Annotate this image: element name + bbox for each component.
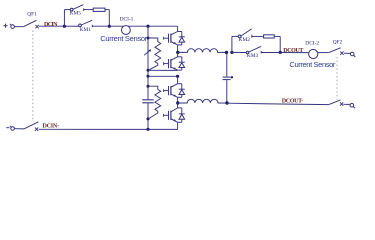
svg-text:Current Sensor: Current Sensor: [100, 34, 148, 43]
svg-text:DCI-2: DCI-2: [305, 40, 319, 46]
svg-text:QF1: QF1: [27, 11, 37, 17]
svg-text:DCIN-: DCIN-: [43, 124, 60, 130]
svg-text:KM5: KM5: [70, 10, 82, 16]
svg-text:KM2: KM2: [239, 37, 251, 43]
svg-text:DCOUT-: DCOUT-: [282, 99, 304, 105]
svg-text:Current Sensor: Current Sensor: [289, 60, 336, 69]
svg-text:QF2: QF2: [333, 39, 343, 45]
svg-text:DCIN: DCIN: [44, 22, 58, 28]
svg-text:KM1: KM1: [80, 27, 92, 33]
svg-text:KM3: KM3: [247, 53, 259, 59]
svg-text:DCI-1: DCI-1: [120, 17, 134, 23]
svg-text:DCOUT: DCOUT: [283, 48, 303, 54]
